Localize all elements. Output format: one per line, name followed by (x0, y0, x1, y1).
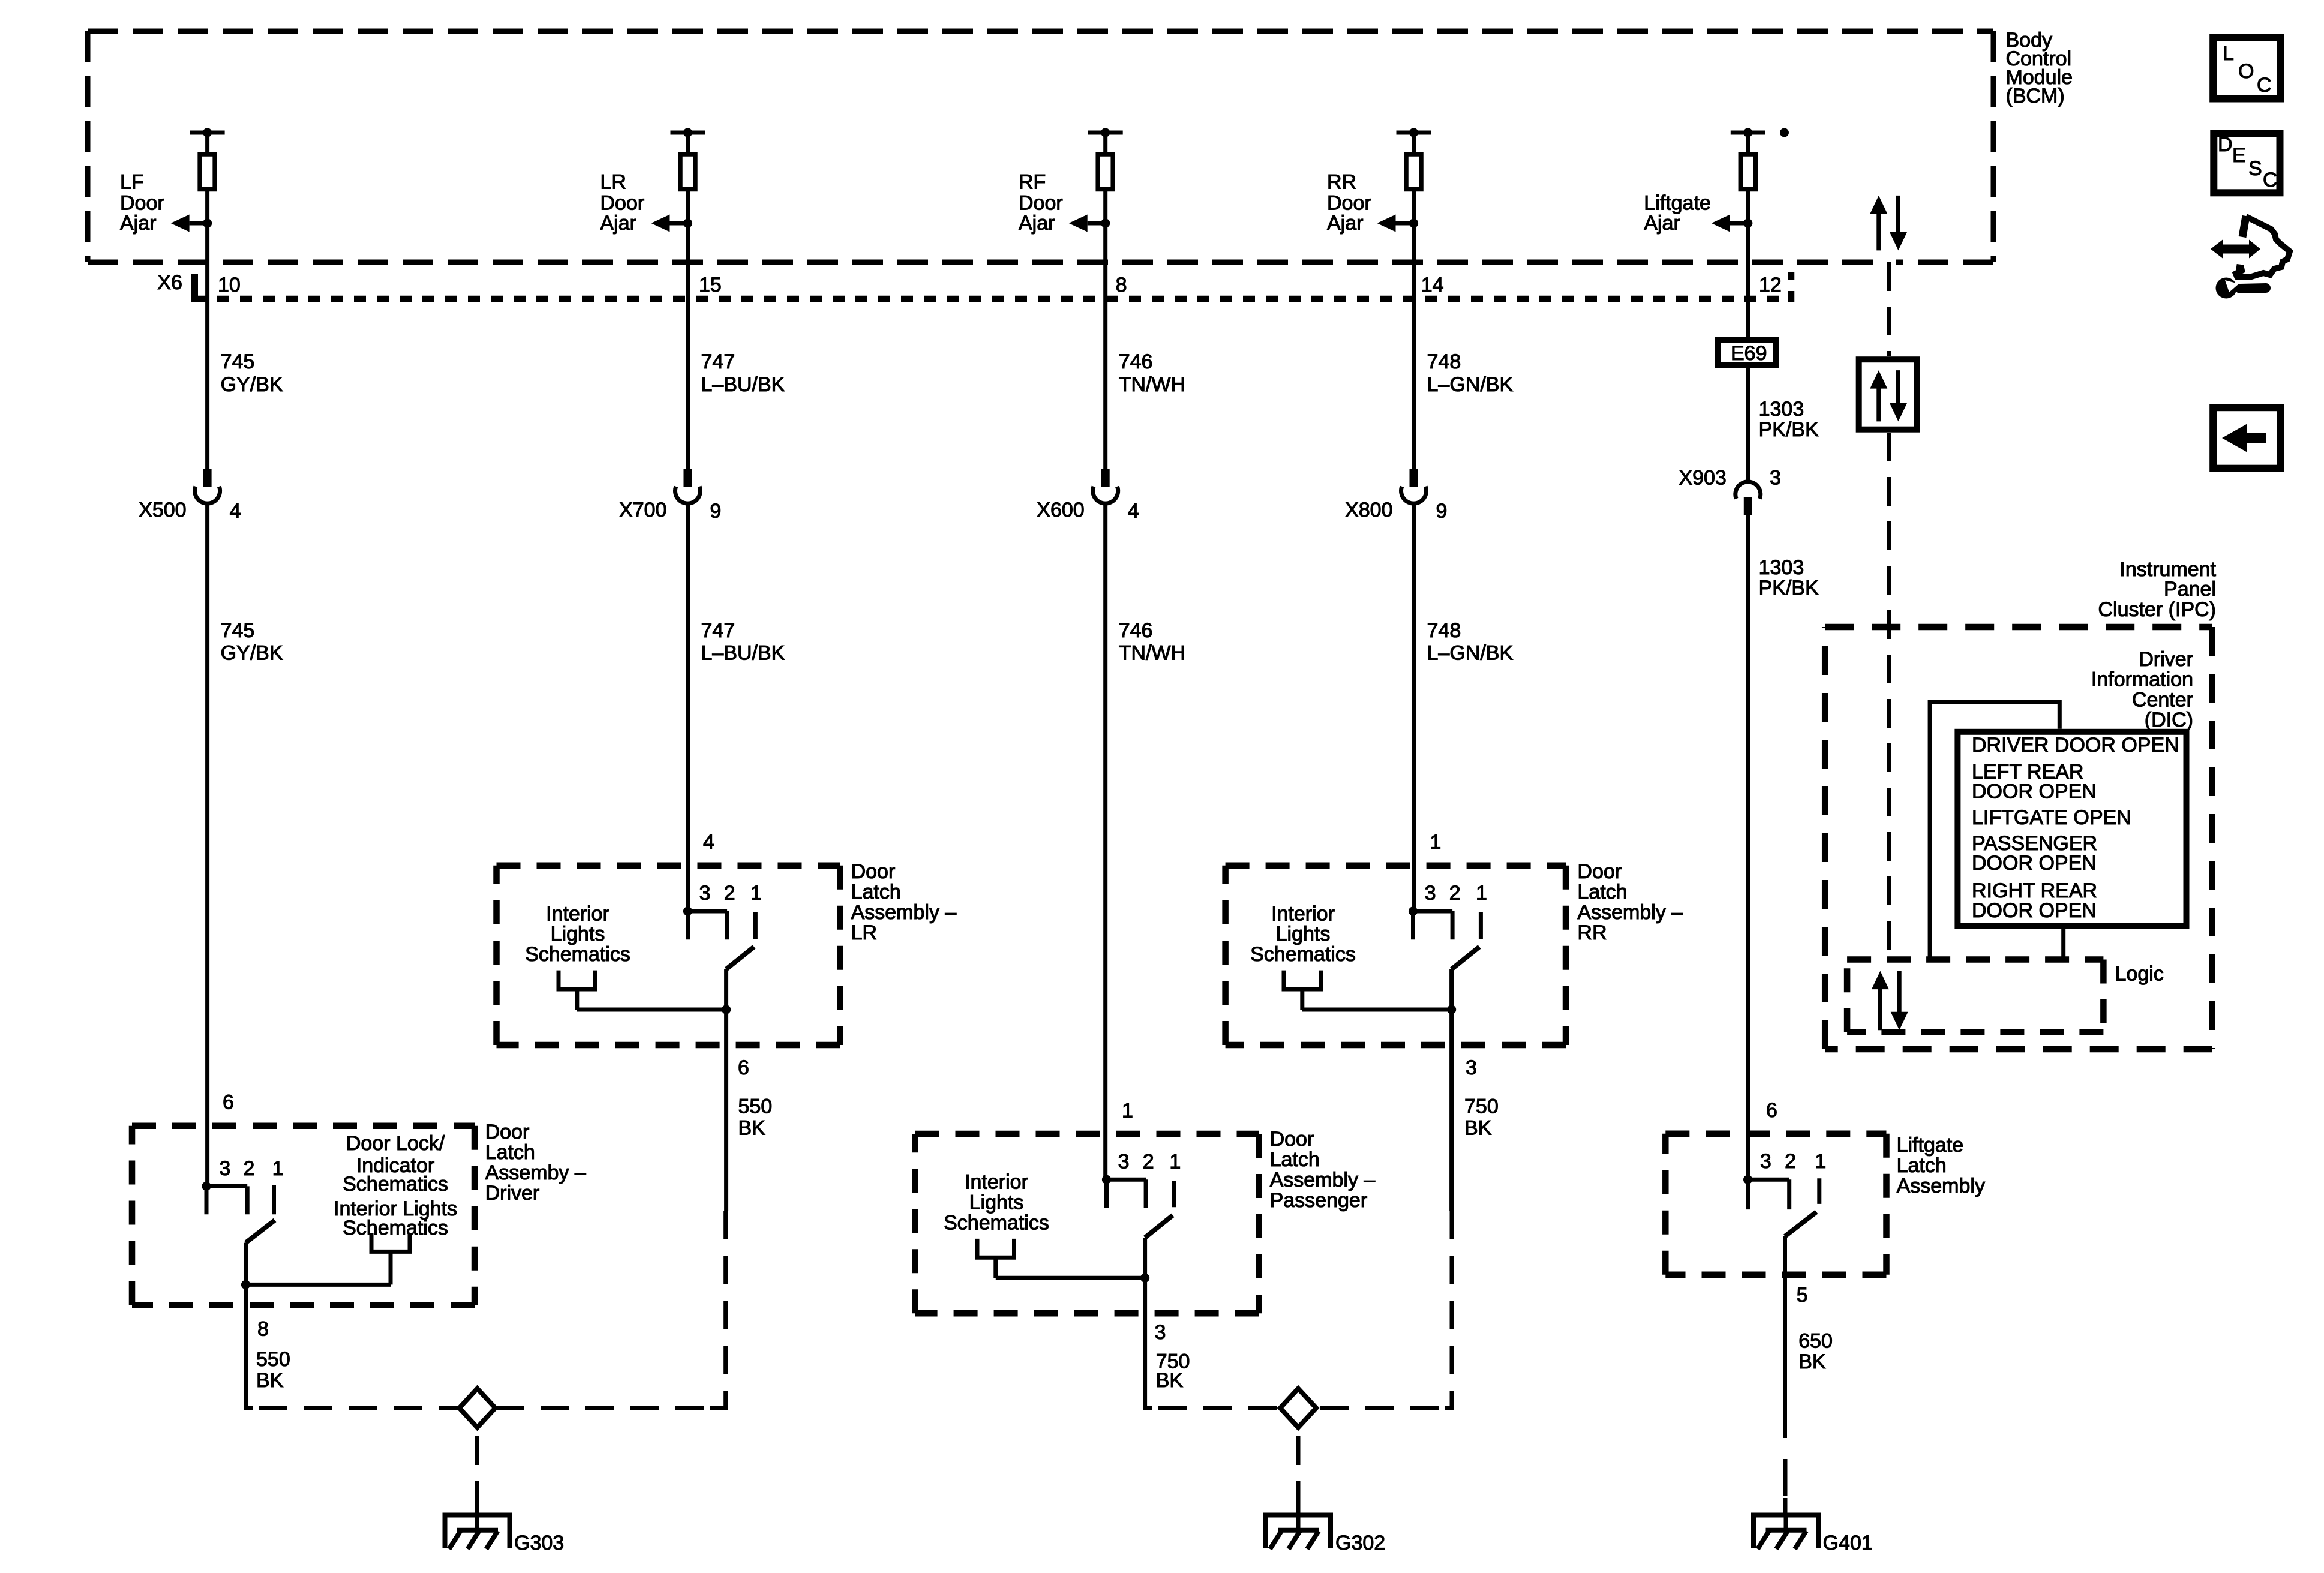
svg-text:Assembly –: Assembly – (1270, 1169, 1376, 1191)
svg-text:Schematics: Schematics (343, 1217, 448, 1239)
svg-text:4: 4 (1128, 500, 1139, 523)
svg-text:X500: X500 (139, 499, 186, 521)
wire 550 BK LR latch to splice (496, 1010, 726, 1408)
label circuit 746 TN/WH (lower) (1119, 619, 1185, 665)
svg-text:1: 1 (1815, 1150, 1826, 1173)
junction dot RR latch common (1447, 1005, 1456, 1014)
svg-text:PK/BK: PK/BK (1759, 577, 1819, 599)
connector X6 dotted line (194, 272, 1791, 302)
svg-text:Latch: Latch (1270, 1148, 1320, 1171)
svg-text:2: 2 (1143, 1150, 1154, 1173)
svg-text:(BCM): (BCM) (2006, 85, 2065, 107)
label Instrument Panel Cluster (IPC) (2098, 558, 2217, 621)
svg-text:Interior: Interior (546, 902, 609, 925)
svg-text:Door: Door (1270, 1128, 1314, 1151)
svg-text:Ajar: Ajar (1644, 212, 1680, 235)
label G401 (1823, 1532, 1873, 1554)
pin labels 3 2 1 RR latch (1425, 882, 1487, 905)
left arrow icon box (2213, 407, 2280, 469)
svg-text:8: 8 (257, 1317, 269, 1340)
service/repair icon (arrow, outline, wrench) (2211, 216, 2290, 299)
svg-text:Door: Door (600, 191, 645, 214)
pin labels 3 2 1 passenger latch (1118, 1150, 1181, 1173)
svg-text:746: 746 (1119, 350, 1153, 373)
node B+ bar LF column (190, 128, 225, 152)
label Door Latch Assembly - Passenger (1270, 1128, 1376, 1212)
wire RR from resistor to connector (1412, 191, 1416, 469)
svg-text:750: 750 (1464, 1095, 1499, 1118)
node B+ bar RF column (1088, 128, 1123, 152)
wire DIC loop (staple) (1930, 702, 2059, 959)
logic dashed box (1847, 960, 2103, 1032)
svg-text:Door Lock/: Door Lock/ (346, 1132, 445, 1155)
svg-text:1: 1 (1122, 1099, 1133, 1122)
wire DIC box to logic (2061, 929, 2065, 960)
svg-text:G302: G302 (1335, 1532, 1385, 1554)
svg-text:2: 2 (244, 1157, 255, 1180)
pin 6 driver latch (top) (223, 1091, 234, 1114)
svg-text:Schematics: Schematics (944, 1211, 1049, 1234)
label circuit 745 GY/BK (upper) (221, 350, 283, 396)
svg-text:Lights: Lights (551, 923, 605, 945)
resistor RF door ajar pull-up (in BCM) (1098, 154, 1113, 190)
ground G303 (445, 1515, 510, 1549)
in-line connector X600 pin 4 (1037, 469, 1139, 523)
pin 6 LR latch (738, 1056, 749, 1079)
pin labels 3 2 1 LR latch (699, 882, 762, 905)
bidirectional arrows inside BCM (1870, 196, 1907, 251)
pin 10 (BCM connector X6) (218, 274, 241, 296)
svg-text:GY/BK: GY/BK (221, 642, 283, 665)
signal arrow LR Door Ajar (651, 215, 693, 232)
svg-text:S: S (2248, 157, 2262, 180)
svg-text:3: 3 (1155, 1321, 1166, 1344)
wire driver latch common to bracket (246, 1283, 391, 1287)
svg-text:3: 3 (1770, 467, 1781, 490)
label Door Latch Assembly - LR (851, 860, 957, 944)
resistor LR door ajar pull-up (in BCM) (680, 154, 695, 190)
label circuit 747 L-BU/BK (lower) (701, 619, 785, 665)
pin 8 driver latch (257, 1317, 269, 1340)
label Driver Information Center (DIC) (2091, 648, 2193, 731)
pin 1 stub LR latch (753, 912, 758, 939)
label circuit 747 L–BU/BK (upper) (701, 350, 785, 396)
label circuit 746 TN/WH (upper) (1119, 350, 1185, 396)
svg-text:PK/BK: PK/BK (1759, 418, 1819, 441)
svg-text:RF: RF (1019, 170, 1046, 193)
svg-text:3: 3 (219, 1157, 230, 1180)
svg-text:Interior: Interior (965, 1171, 1028, 1194)
svg-text:Schematics: Schematics (1250, 943, 1356, 966)
svg-text:Panel: Panel (2164, 578, 2216, 601)
pin 1 stub driver latch (272, 1185, 276, 1214)
serial data gateway box with arrows (1859, 359, 1917, 430)
Instrument Panel Cluster (IPC) dashed box (1825, 627, 2212, 1049)
ground G401 (1753, 1515, 1818, 1549)
label G303 (514, 1532, 564, 1554)
wire splice to G303 (dashed) (475, 1436, 479, 1516)
resistor RR door ajar pull-up (in BCM) (1406, 154, 1421, 190)
switch liftgate ajar (1785, 1212, 1817, 1438)
svg-text:DRIVER DOOR OPEN: DRIVER DOOR OPEN (1972, 734, 2179, 757)
resistor Liftgate door ajar pull-up (in BCM) (1740, 154, 1755, 190)
svg-text:650: 650 (1798, 1329, 1833, 1352)
pin 8 (BCM connector X6) (1116, 274, 1127, 296)
pin 4 LR latch (703, 831, 714, 854)
wire 750 BK RR latch to splice (1316, 1010, 1452, 1408)
svg-text:E69: E69 (1731, 342, 1767, 365)
svg-text:Cluster (IPC): Cluster (IPC) (2098, 598, 2216, 621)
svg-text:LR: LR (851, 921, 877, 944)
label RF Door Ajar (1019, 170, 1063, 235)
label Door Latch Assemby - Driver (485, 1121, 586, 1205)
svg-text:DOOR OPEN: DOOR OPEN (1972, 899, 2097, 922)
svg-text:4: 4 (230, 500, 241, 523)
svg-text:3: 3 (1425, 882, 1436, 905)
wire LR latch common to bracket (577, 1008, 726, 1012)
label Liftgate Door Ajar (1644, 191, 1711, 235)
ref bracket door lock/interior lights schematics (371, 1233, 410, 1284)
svg-text:747: 747 (701, 619, 735, 642)
svg-text:(DIC): (DIC) (2145, 709, 2193, 731)
svg-text:Liftgate: Liftgate (1644, 191, 1711, 214)
svg-text:2: 2 (1785, 1150, 1796, 1173)
DIC display box (1957, 732, 2186, 926)
svg-text:X700: X700 (619, 499, 666, 521)
svg-text:Latch: Latch (1897, 1154, 1947, 1177)
label Door Lock/Indicator Schematics Interior Lights Schematics (334, 1132, 457, 1239)
svg-text:1: 1 (1430, 831, 1441, 854)
svg-text:550: 550 (738, 1095, 773, 1118)
svg-text:Ajar: Ajar (600, 212, 636, 235)
in-line connector X903 pin 3 (1679, 467, 1781, 515)
svg-text:6: 6 (223, 1091, 234, 1114)
label circuit 550 BK (LR) (738, 1095, 773, 1139)
svg-text:3: 3 (699, 882, 711, 905)
pin 1 stub passenger latch (1172, 1181, 1176, 1207)
junction dot LR latch common (722, 1005, 731, 1014)
svg-text:9: 9 (1436, 500, 1448, 523)
label Liftgate Latch Assembly (1897, 1134, 1985, 1197)
node B+ bar RR column (1397, 128, 1431, 152)
label circuit 750 BK (passenger) (1156, 1350, 1190, 1392)
svg-text:Assemby –: Assemby – (485, 1161, 586, 1184)
svg-text:Driver: Driver (485, 1182, 540, 1205)
splice diamond 750 BK circuit (1280, 1389, 1316, 1428)
svg-text:E: E (2232, 144, 2246, 167)
node liftgate latch pins 3-2 tie (1743, 1175, 1789, 1209)
wire 746 below X600 (1103, 505, 1107, 1179)
svg-text:3: 3 (1760, 1150, 1771, 1173)
svg-text:Door: Door (1327, 191, 1371, 214)
svg-text:14: 14 (1421, 274, 1444, 296)
node B+ bar Liftgate column (1731, 128, 1765, 152)
svg-text:2: 2 (724, 882, 735, 905)
wire 1303 PK/BK E69 to X903 (1746, 368, 1750, 484)
svg-text:BK: BK (1156, 1369, 1184, 1392)
svg-text:Schematics: Schematics (343, 1173, 448, 1196)
label circuit 750 BK (RR) (1464, 1095, 1499, 1139)
svg-text:Assembly –: Assembly – (1577, 901, 1683, 924)
svg-text:8: 8 (1116, 274, 1127, 296)
svg-text:12: 12 (1759, 274, 1782, 296)
in-line connector X800 pin 9 (1345, 469, 1447, 523)
svg-text:745: 745 (221, 350, 255, 373)
svg-text:L–GN/BK: L–GN/BK (1427, 642, 1514, 665)
label circuit 748 L–GN/BK (upper) (1427, 350, 1514, 396)
signal arrow RR Door Ajar (1377, 215, 1419, 232)
ref bracket interior lights schematics (RR) (1284, 971, 1321, 1010)
svg-text:BK: BK (1798, 1350, 1826, 1373)
wire 745 below X500 (205, 505, 209, 1186)
svg-text:Lights: Lights (1276, 923, 1331, 945)
svg-text:Lights: Lights (969, 1191, 1024, 1214)
svg-text:Door: Door (1019, 191, 1063, 214)
splice pack E69 (1718, 340, 1776, 365)
svg-text:745: 745 (221, 619, 255, 642)
svg-text:BK: BK (738, 1117, 766, 1140)
svg-text:Door: Door (120, 191, 164, 214)
pin 3 RR latch (1466, 1056, 1477, 1079)
label LF Door Ajar (120, 170, 164, 235)
svg-text:1: 1 (1476, 882, 1487, 905)
svg-text:748: 748 (1427, 619, 1461, 642)
pin 5 liftgate latch (1797, 1284, 1808, 1307)
label LR Door Ajar (600, 170, 645, 235)
svg-text:Passenger: Passenger (1270, 1189, 1368, 1212)
svg-text:Liftgate: Liftgate (1897, 1134, 1964, 1157)
pin 3 passenger latch (1155, 1321, 1166, 1344)
svg-text:BK: BK (1464, 1117, 1492, 1140)
Door Latch Assembly - RR dashed box (1226, 866, 1566, 1045)
pin 1 stub liftgate latch (1817, 1178, 1821, 1204)
label Door Latch Assembly - RR (1577, 860, 1683, 944)
signal arrow LF Door Ajar (171, 215, 212, 232)
switch LR door ajar (726, 947, 754, 1010)
svg-text:Center: Center (2132, 688, 2193, 711)
svg-text:4: 4 (703, 831, 714, 854)
Door Latch Assembly - Passenger dashed box (915, 1134, 1259, 1313)
wire 747 below X700 (686, 505, 690, 911)
svg-text:550: 550 (256, 1348, 290, 1371)
svg-text:746: 746 (1119, 619, 1153, 642)
svg-text:L: L (2223, 42, 2234, 65)
svg-text:RR: RR (1577, 921, 1607, 944)
label circuit 1303 PK/BK (lower) (1759, 556, 1819, 599)
Door Latch Assembly - LR dashed box (497, 866, 840, 1045)
svg-text:6: 6 (1766, 1099, 1777, 1122)
signal arrow Liftgate Door Ajar (1712, 215, 1753, 232)
svg-text:RR: RR (1327, 170, 1356, 193)
junction dot driver latch common (241, 1280, 250, 1289)
switch RR door ajar (1452, 947, 1479, 1010)
svg-text:DOOR OPEN: DOOR OPEN (1972, 852, 2097, 875)
ref bracket interior lights schematics (passenger) (977, 1239, 1014, 1278)
ref bracket interior lights schematics (LR) (559, 971, 596, 1010)
svg-text:2: 2 (1449, 882, 1461, 905)
svg-text:15: 15 (699, 274, 722, 296)
svg-text:Assembly: Assembly (1897, 1175, 1985, 1197)
label Logic (2115, 963, 2164, 986)
svg-text:G303: G303 (514, 1532, 564, 1554)
label Interior Lights Schematics (RR) (1250, 902, 1356, 966)
svg-text:3: 3 (1466, 1056, 1477, 1079)
svg-text:LIFTGATE OPEN: LIFTGATE OPEN (1972, 806, 2131, 829)
wire 1303 PK/BK X903 to liftgate latch (1746, 515, 1750, 1179)
label X6 (157, 271, 182, 294)
svg-text:LF: LF (120, 170, 144, 193)
label circuit 1303 PK/BK (upper) (1759, 398, 1819, 441)
pin labels 3 2 1 liftgate latch (1760, 1150, 1826, 1173)
svg-text:10: 10 (218, 274, 241, 296)
svg-text:3: 3 (1118, 1150, 1130, 1173)
wire splice to G302 (dashed) (1296, 1436, 1301, 1516)
svg-text:C: C (2257, 74, 2272, 97)
in-line connector X500 pin 4 (139, 469, 241, 523)
svg-text:1: 1 (750, 882, 762, 905)
svg-text:5: 5 (1797, 1284, 1808, 1307)
Door Latch Assembly - Driver dashed box (132, 1126, 475, 1305)
pin 1 RR latch (top) (1430, 831, 1441, 854)
stray dot near liftgate bar (1780, 128, 1789, 137)
svg-text:Ajar: Ajar (120, 212, 156, 235)
svg-text:Latch: Latch (485, 1141, 535, 1164)
wire LR from resistor to connector (686, 191, 690, 469)
svg-text:1: 1 (272, 1157, 284, 1180)
label Interior Lights Schematics (passenger) (944, 1171, 1049, 1235)
pin 12 (BCM connector X6) (1759, 274, 1782, 296)
pin labels 3 2 1 driver latch (219, 1157, 283, 1180)
bidirectional arrows inside logic box (1872, 971, 1908, 1031)
svg-text:Door: Door (851, 860, 896, 883)
BCM label (2006, 29, 2073, 107)
svg-text:D: D (2218, 133, 2233, 156)
node driver latch pins 3-2 tie (202, 1182, 247, 1214)
svg-text:Logic: Logic (2115, 963, 2164, 986)
wire LF from resistor to connector (205, 191, 209, 469)
Body Control Module (BCM) dashed box (88, 31, 1993, 262)
svg-text:Driver: Driver (2139, 648, 2193, 671)
ground G302 (1266, 1515, 1331, 1549)
svg-text:L–BU/BK: L–BU/BK (701, 642, 785, 665)
svg-text:X6: X6 (157, 271, 182, 294)
node RR latch pins 3-2 tie (1409, 906, 1452, 939)
svg-text:6: 6 (738, 1056, 749, 1079)
dashed serial data line BCM to IPC logic (1887, 262, 1891, 960)
label G302 (1335, 1532, 1385, 1554)
Liftgate Latch Assembly dashed box (1665, 1134, 1886, 1275)
svg-text:9: 9 (710, 500, 722, 523)
svg-text:1303: 1303 (1759, 398, 1804, 421)
svg-text:LR: LR (600, 170, 626, 193)
label Interior Lights Schematics (LR) (525, 902, 630, 966)
switch driver door ajar (246, 1220, 275, 1284)
svg-text:GY/BK: GY/BK (221, 373, 283, 396)
splice diamond 550 BK circuit (460, 1389, 496, 1428)
svg-text:G401: G401 (1823, 1532, 1873, 1554)
LOC icon box (2213, 38, 2280, 99)
svg-text:Interior: Interior (1271, 902, 1335, 925)
wire passenger latch common to bracket (996, 1276, 1145, 1280)
pin 1 passenger latch (top) (1122, 1099, 1133, 1122)
wire 750 BK passenger latch to splice (1145, 1278, 1280, 1408)
svg-text:Assembly –: Assembly – (851, 901, 957, 924)
svg-text:Ajar: Ajar (1327, 212, 1363, 235)
svg-text:1: 1 (1169, 1150, 1181, 1173)
node LR latch pins 3-2 tie (683, 906, 727, 939)
label circuit 745 GY/BK (lower) (221, 619, 283, 665)
svg-text:Information: Information (2091, 668, 2193, 691)
node passenger latch pins 3-2 tie (1102, 1175, 1146, 1208)
svg-text:748: 748 (1427, 350, 1461, 373)
DESC icon box (2214, 133, 2280, 193)
svg-text:TN/WH: TN/WH (1119, 642, 1185, 665)
svg-text:Door: Door (485, 1121, 530, 1143)
wire 748 below X800 (1412, 505, 1416, 911)
svg-text:BK: BK (256, 1369, 284, 1392)
pin 6 liftgate latch (top) (1766, 1099, 1777, 1122)
svg-text:L–BU/BK: L–BU/BK (701, 373, 785, 396)
svg-text:Schematics: Schematics (525, 943, 630, 966)
svg-text:Latch: Latch (851, 881, 901, 903)
svg-text:747: 747 (701, 350, 735, 373)
svg-text:O: O (2238, 60, 2254, 83)
pin 15 (BCM connector X6) (699, 274, 722, 296)
pin 1 stub RR latch (1479, 912, 1483, 939)
svg-text:Door: Door (1577, 860, 1622, 883)
wire RR latch common to bracket (1302, 1008, 1452, 1012)
wire 550 BK driver latch to splice (246, 1284, 460, 1408)
svg-text:C: C (2263, 169, 2278, 191)
svg-text:X903: X903 (1679, 467, 1726, 490)
label circuit 650 BK (1798, 1329, 1833, 1373)
resistor LF door ajar pull-up (in BCM) (200, 154, 215, 190)
node B+ bar LR column (671, 128, 705, 152)
svg-text:L–GN/BK: L–GN/BK (1427, 373, 1514, 396)
wire 650 BK to G401 (dashed) (1783, 1459, 1788, 1516)
signal arrow RF Door Ajar (1069, 215, 1110, 232)
svg-text:1303: 1303 (1759, 556, 1804, 579)
wire Liftgate from resistor to E69 (1746, 191, 1750, 337)
label circuit 550 BK (driver) (256, 1348, 290, 1392)
svg-text:Latch: Latch (1577, 881, 1627, 903)
svg-text:X800: X800 (1345, 499, 1392, 521)
switch passenger door ajar (1145, 1215, 1173, 1278)
label RR Door Ajar (1327, 170, 1371, 235)
label circuit 748 L-GN/BK (lower) (1427, 619, 1514, 665)
svg-text:DOOR OPEN: DOOR OPEN (1972, 781, 2097, 803)
in-line connector X700 pin 9 (619, 469, 721, 523)
wire RF from resistor to connector (1103, 191, 1107, 469)
pin 14 (BCM connector X6) (1421, 274, 1444, 296)
junction dot passenger latch common (1140, 1274, 1149, 1283)
svg-text:TN/WH: TN/WH (1119, 373, 1185, 396)
svg-text:Ajar: Ajar (1019, 212, 1055, 235)
svg-text:X600: X600 (1037, 499, 1084, 521)
